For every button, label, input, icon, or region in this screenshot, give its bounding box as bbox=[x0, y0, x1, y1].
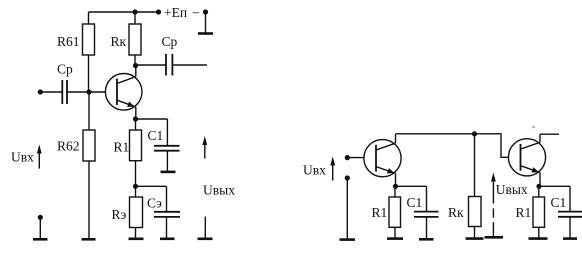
svg-text:Uвх: Uвх bbox=[303, 163, 326, 178]
node Rk top junction bbox=[132, 9, 137, 14]
resistor Rк right bbox=[474, 134, 476, 197]
svg-text:Uвых: Uвых bbox=[496, 182, 528, 197]
wire VT2 collector to junction bbox=[396, 133, 475, 135]
ground input right bbox=[340, 238, 356, 241]
stray mark bbox=[532, 126, 535, 129]
node input bottom right bbox=[345, 175, 350, 180]
arrow Uвых left bbox=[204, 142, 206, 159]
ground Rэ bbox=[129, 238, 144, 241]
wire base VT2 bbox=[347, 157, 364, 159]
capacitor Cр output bbox=[136, 64, 167, 66]
ground C1 second bbox=[563, 237, 577, 240]
resistor R1 bbox=[130, 130, 142, 161]
svg-text:Cр: Cр bbox=[162, 34, 178, 49]
node emitter VT3 bbox=[536, 184, 541, 189]
node base divider bbox=[86, 89, 91, 94]
svg-text:R61: R61 bbox=[57, 34, 80, 49]
wire input lower to ground bbox=[346, 178, 348, 240]
resistor Rэ bbox=[130, 197, 143, 228]
svg-text:+Eп: +Eп bbox=[164, 5, 187, 20]
wire junction to VT3 base bbox=[475, 134, 509, 158]
capacitor Cр input bbox=[40, 91, 62, 93]
node input top right bbox=[345, 155, 350, 160]
transistor VT3 bbox=[508, 139, 545, 176]
resistor R1 second bbox=[533, 197, 545, 227]
resistor R61 bbox=[88, 12, 90, 24]
ground C1 first bbox=[419, 238, 434, 241]
ground output left bbox=[204, 217, 206, 239]
resistor R62 bbox=[88, 92, 90, 130]
arrow Uвых right dashed bbox=[492, 178, 494, 204]
svg-text:C1: C1 bbox=[551, 195, 567, 210]
resistor R1 first bbox=[389, 197, 401, 227]
svg-text:R62: R62 bbox=[57, 139, 80, 154]
svg-text:R1: R1 bbox=[372, 205, 388, 220]
capacitor C1 second bbox=[539, 185, 570, 187]
wire top supply rail bbox=[89, 11, 159, 13]
transistor VT1 bbox=[105, 74, 142, 111]
node input lower terminal bbox=[38, 215, 43, 220]
ground input bbox=[33, 238, 48, 241]
ground Cэ bbox=[160, 238, 175, 241]
ground R1 second bbox=[529, 237, 548, 240]
transistor VT2 bbox=[364, 140, 401, 177]
svg-text:Uвх: Uвх bbox=[11, 150, 34, 165]
node supply minus terminal bbox=[203, 9, 208, 14]
svg-text:C1: C1 bbox=[148, 128, 164, 143]
ground Uвых right bbox=[485, 236, 504, 239]
node collector bbox=[133, 63, 138, 68]
resistor Rк bbox=[134, 12, 136, 24]
svg-text:Rэ: Rэ bbox=[112, 207, 127, 222]
node input terminal bbox=[38, 89, 43, 94]
arrow Uвх right bbox=[332, 162, 334, 181]
node +Ep terminal bbox=[156, 9, 161, 14]
svg-text:Rк: Rк bbox=[448, 205, 464, 220]
ground Rк right bbox=[466, 237, 484, 240]
svg-text:Cр: Cр bbox=[57, 62, 73, 77]
svg-text:R1: R1 bbox=[114, 140, 130, 155]
arrow Uвх left bbox=[38, 150, 40, 169]
ground R1 first bbox=[387, 237, 403, 240]
ground C1 bbox=[161, 171, 176, 174]
svg-text:–: – bbox=[192, 4, 200, 19]
capacitor C1 bbox=[136, 118, 168, 120]
svg-text:Uвых: Uвых bbox=[203, 182, 235, 197]
capacitor Cэ bbox=[136, 185, 167, 187]
capacitor C1 first bbox=[396, 185, 427, 187]
ground supply bbox=[205, 12, 207, 33]
wire VT3 collector top bbox=[540, 133, 559, 135]
node junction bbox=[472, 131, 477, 136]
svg-text:Cэ: Cэ bbox=[147, 196, 162, 211]
svg-text:Rк: Rк bbox=[111, 34, 127, 49]
node emitter bbox=[133, 116, 138, 121]
svg-text:R1: R1 bbox=[516, 205, 532, 220]
svg-text:C1: C1 bbox=[407, 195, 423, 210]
ground R62 bbox=[82, 238, 96, 241]
node emitter divider bbox=[133, 184, 138, 189]
node emitter VT2 bbox=[393, 184, 398, 189]
